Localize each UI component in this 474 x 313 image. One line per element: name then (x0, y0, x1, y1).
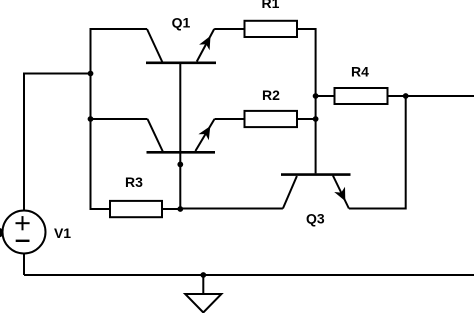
transistor Q2 (147, 119, 216, 152)
resistor R2 (245, 111, 298, 127)
wire V1 bottom lead (23, 254, 25, 276)
wire output node down and left to Q3 emitter (349, 96, 406, 209)
wire Q1 emitter to R1 (214, 28, 244, 30)
junction Q1/Q2 base tie (177, 162, 183, 168)
wire V1 top lead up and right to left rail (24, 74, 91, 211)
ground (185, 294, 221, 313)
wire R2 right to Q3 base line (297, 118, 316, 120)
svg-text:R4: R4 (351, 64, 369, 80)
transistor Q1 (146, 29, 216, 63)
wire ground stub (202, 275, 204, 294)
wire Q1 base down through Q2 base to R3 node (179, 64, 181, 209)
junction output node at R4 right (403, 93, 409, 99)
wire bottom rail to right edge (24, 274, 474, 276)
wire Q2 collector feed from left rail (91, 118, 148, 120)
wire Q2 emitter to R2 (215, 118, 245, 120)
wire R4 feed from Q3 base line (316, 95, 335, 97)
resistor R4 (335, 88, 388, 104)
transistor Q3 (281, 175, 351, 209)
wire R3 right to base node (162, 208, 180, 210)
voltage source V1 (3, 211, 46, 254)
junction R4 feed on Q3 base line (313, 93, 319, 99)
resistor R1 (245, 21, 298, 37)
junction Q2 collector tap on left rail (88, 116, 94, 122)
svg-text:V1: V1 (54, 225, 71, 241)
svg-text:R2: R2 (262, 87, 280, 103)
wire left rail with corners to Q1 collector and R3 left (91, 29, 148, 209)
junction ground node on bottom rail (200, 272, 206, 278)
resistor R3 (110, 201, 162, 217)
wire R1 right down to Q3 base (297, 29, 316, 173)
junction V1 top on left rail (88, 71, 94, 77)
wire Q3 collector left to R3 node (180, 208, 283, 210)
svg-text:R3: R3 (125, 174, 143, 190)
junction R2 on Q3 base line (313, 116, 319, 122)
svg-text:Q3: Q3 (306, 210, 325, 226)
svg-text:R1: R1 (262, 0, 280, 11)
wire R4 right to output edge (388, 95, 474, 97)
junction R3 / base line / Q3 collector node (177, 206, 183, 212)
svg-text:Q1: Q1 (172, 14, 191, 30)
junction at left edge on V1 circle (0, 228, 4, 238)
